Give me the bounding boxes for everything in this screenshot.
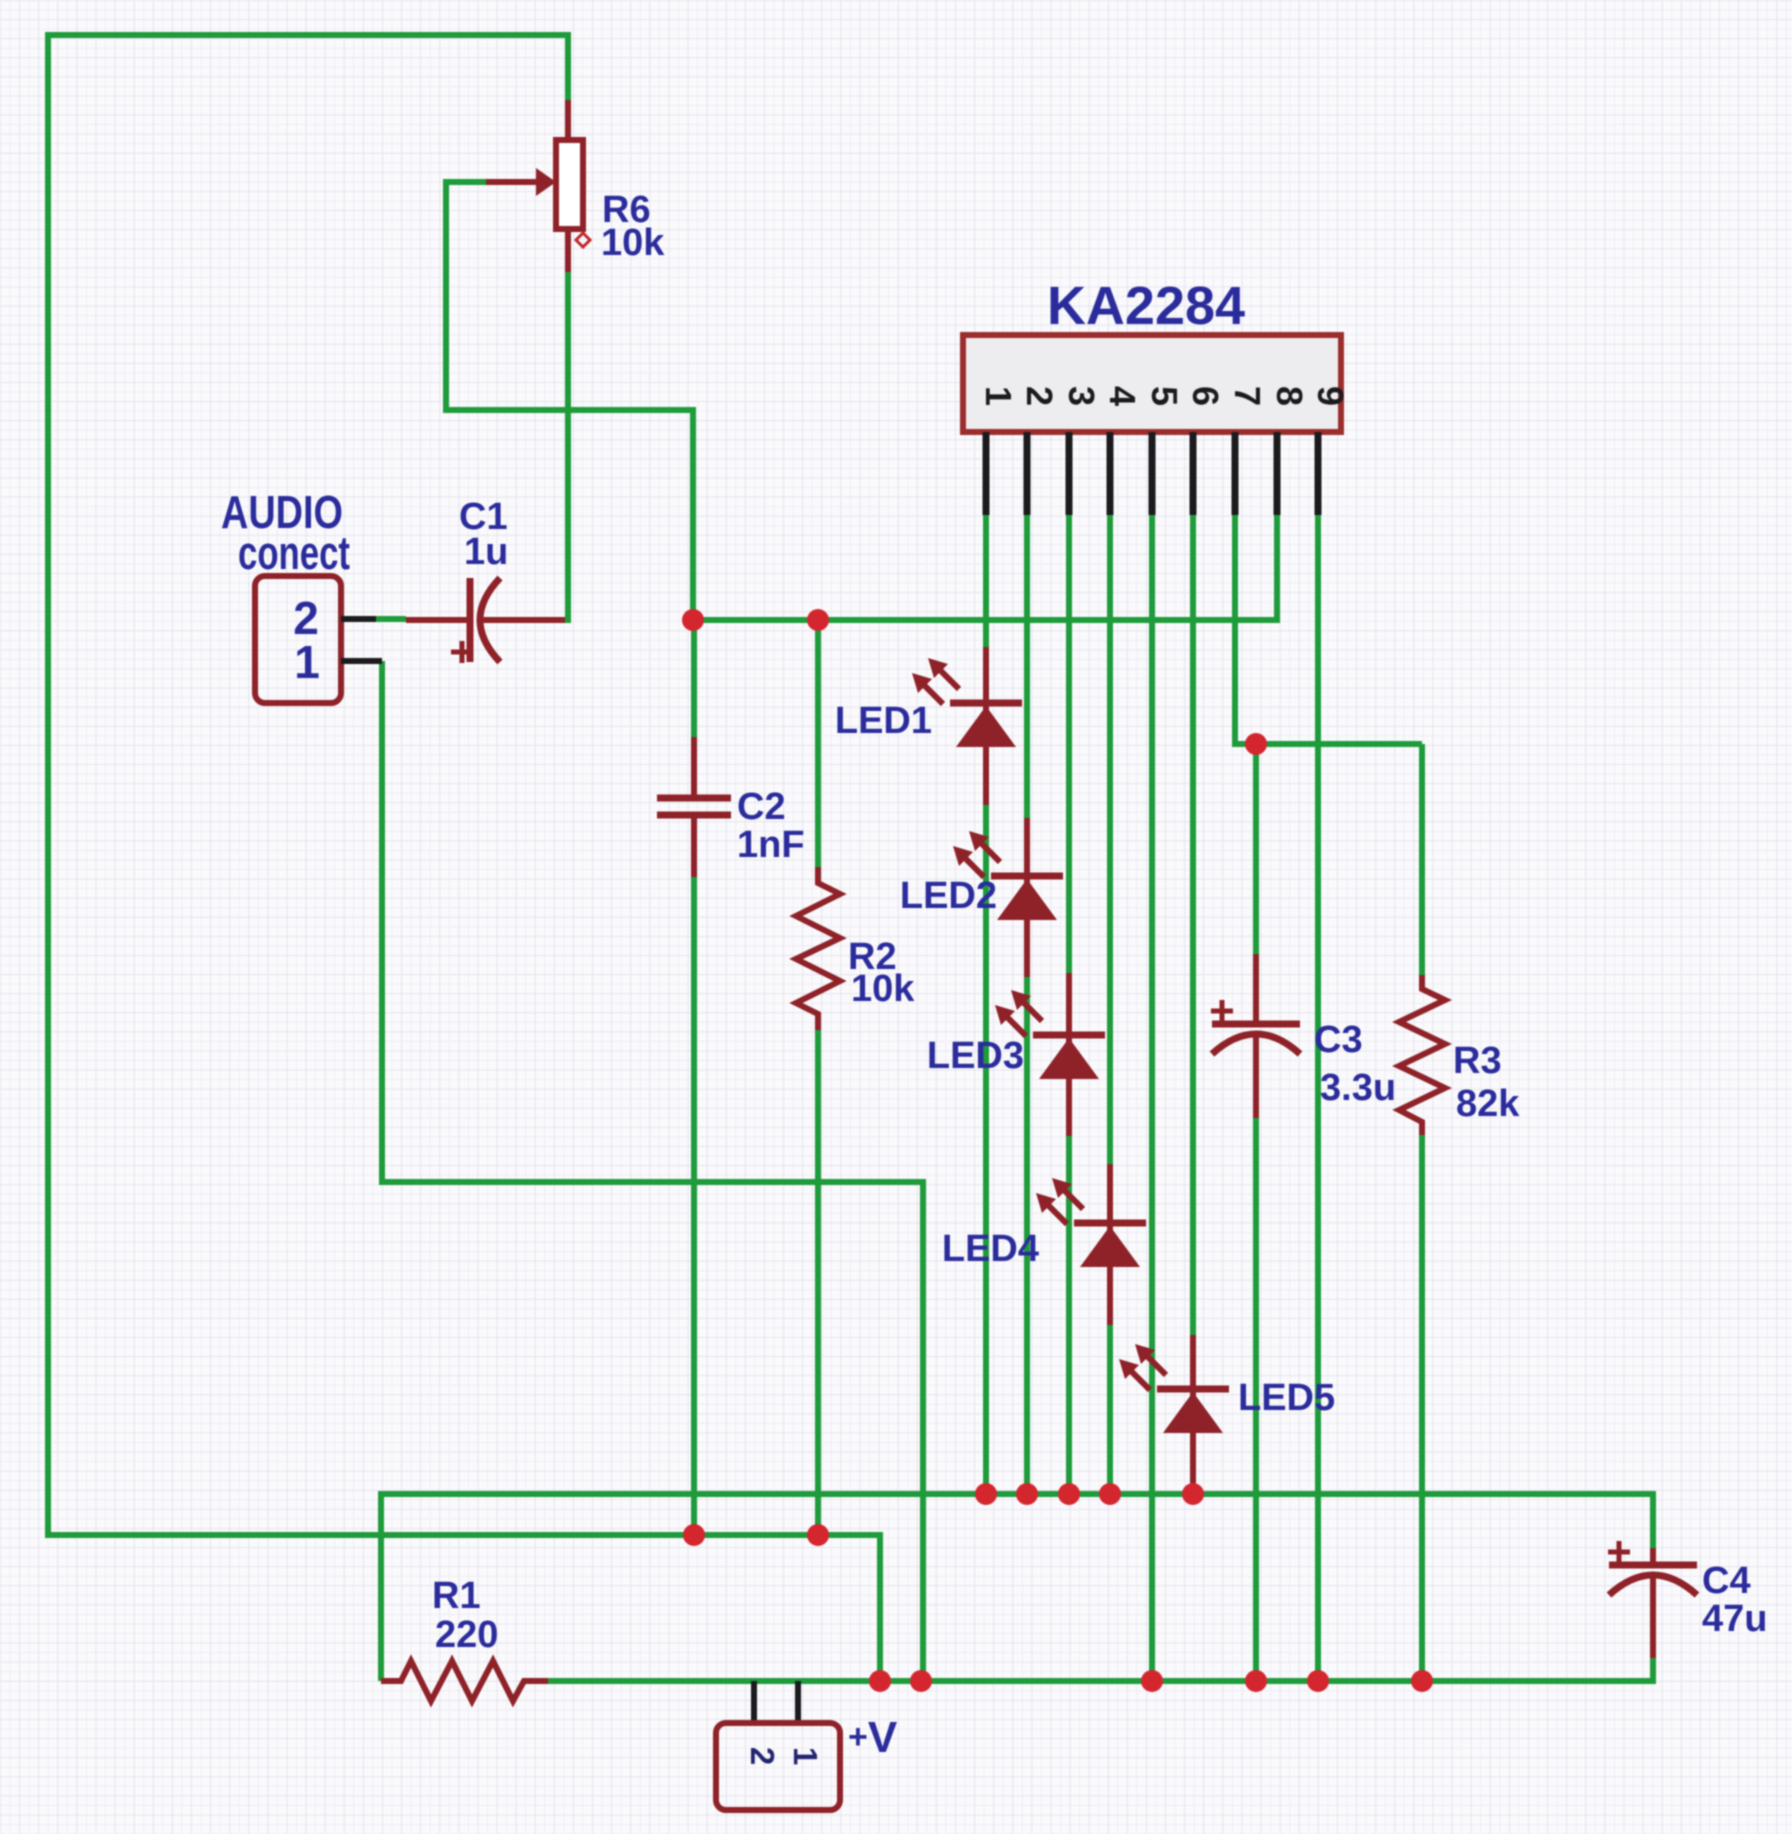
wire C2 branch verticals (691, 620, 697, 1535)
svg-text:LED5: LED5 (1238, 1377, 1335, 1419)
connector X1 AUDIO (255, 576, 382, 703)
wire AUDIO pin2 short green segment (376, 616, 406, 622)
junction R2 bottom node (807, 1524, 829, 1546)
junction pin9 on +V bus (1307, 1670, 1329, 1692)
wire node net at y=620 to IC pin 8 (693, 515, 1277, 620)
wire IC pin5 drop to bottom bus (1149, 515, 1155, 1681)
svg-text:LED3: LED3 (927, 1035, 1024, 1077)
junction LED4 cathode bus (1099, 1483, 1121, 1505)
junction LED1 cathode bus (975, 1483, 997, 1505)
svg-text:1nF: 1nF (737, 824, 805, 866)
svg-text:R1: R1 (432, 1575, 481, 1617)
wire IC pin7 route to C3 and R3 (1235, 515, 1422, 744)
wire IC pin3 drop with LED3 net (1066, 515, 1072, 1494)
junction C3 on +V bus (1245, 1670, 1267, 1692)
svg-text:conect: conect (238, 526, 350, 579)
resistor R1 (381, 1661, 548, 1701)
LED LED5 (1119, 1335, 1229, 1494)
capacitor C2 (657, 737, 731, 877)
wire AUDIO pin1 to +V bus (382, 661, 923, 1681)
svg-text:9: 9 (1310, 386, 1351, 406)
svg-text:6: 6 (1185, 386, 1226, 406)
LED LED4 (1036, 1164, 1146, 1325)
svg-text:C4: C4 (1702, 1560, 1751, 1602)
connector X2 +V supply (716, 1681, 840, 1810)
svg-text:C3: C3 (1314, 1019, 1363, 1061)
junction AUDIO pin1 joins +V bus (910, 1670, 932, 1692)
svg-text:1: 1 (787, 1747, 824, 1765)
svg-text:LED1: LED1 (835, 700, 932, 742)
svg-text:2: 2 (1019, 386, 1060, 406)
capacitor C1 (406, 578, 565, 663)
svg-text:1: 1 (978, 386, 1019, 406)
svg-text:8: 8 (1269, 386, 1310, 406)
svg-text:220: 220 (435, 1614, 498, 1656)
svg-text:1u: 1u (464, 531, 508, 573)
resistor R2 (796, 867, 840, 1030)
potentiometer R6 (486, 100, 590, 272)
svg-text:LED4: LED4 (942, 1228, 1039, 1270)
wire ground loop: top-left rail from R6 top around left side to bottom rail (48, 35, 880, 1681)
LED LED3 (995, 973, 1105, 1136)
junction at C2 top node (682, 609, 704, 631)
LED LED1 (912, 647, 1022, 805)
svg-text:+V: +V (848, 1713, 898, 1762)
wire LED cathode bus (bus1) from R1 left lead to C4 top (381, 1494, 1653, 1681)
wire R6 wiper net: wiper arrow to C2/R2/pin8 node (446, 182, 693, 620)
svg-text:3: 3 (1061, 386, 1102, 406)
capacitor C4 (1608, 1541, 1697, 1658)
wire R6 bottom terminal to C1 right plate (565, 272, 568, 620)
wire IC pin9 drop to bottom bus (1315, 515, 1321, 1681)
svg-text:C2: C2 (737, 786, 786, 828)
capacitor C3 (1211, 954, 1300, 1118)
junction at C3 top node (1245, 733, 1267, 755)
junction R3 on +V bus (1411, 1670, 1433, 1692)
wire R3 branch verticals (1419, 744, 1425, 1681)
wire IC pin1 drop with LED1 net (983, 515, 989, 1494)
svg-text:10k: 10k (601, 222, 665, 264)
wire C3 branch verticals (1253, 744, 1259, 1681)
junction at R2 top node (807, 609, 829, 631)
svg-text:R3: R3 (1453, 1040, 1502, 1082)
junction C2 bottom node (683, 1524, 705, 1546)
wire IC pin2 drop with LED2 net (1024, 515, 1030, 1494)
junction LED2 cathode bus (1016, 1483, 1038, 1505)
wire +V bottom bus (bus2) from R1 right lead to C4 bottom (548, 1658, 1653, 1681)
wire IC pin6 drop to LED5 (1190, 515, 1196, 1335)
LED LED2 (953, 818, 1063, 977)
svg-text:4: 4 (1102, 386, 1143, 406)
svg-text:2: 2 (744, 1747, 781, 1765)
svg-text:LED2: LED2 (900, 875, 997, 917)
svg-text:82k: 82k (1456, 1083, 1520, 1125)
resistor R3 (1399, 975, 1445, 1135)
svg-text:47u: 47u (1702, 1598, 1767, 1640)
wire IC pin4 drop with LED4 net (1107, 515, 1113, 1494)
junction LED3 cathode bus (1058, 1483, 1080, 1505)
junction pin5 on +V bus (1141, 1670, 1163, 1692)
svg-text:3.3u: 3.3u (1320, 1067, 1396, 1109)
svg-text:KA2284: KA2284 (1047, 276, 1245, 336)
svg-text:1: 1 (294, 636, 320, 688)
svg-text:10k: 10k (851, 968, 915, 1010)
svg-text:7: 7 (1227, 386, 1268, 406)
svg-text:5: 5 (1144, 386, 1185, 406)
junction LED5 cathode bus (1182, 1483, 1204, 1505)
IC U1 KA2284 (963, 335, 1341, 515)
junction ground rail joins +V bus (869, 1670, 891, 1692)
wire R2 branch verticals (815, 620, 821, 1535)
